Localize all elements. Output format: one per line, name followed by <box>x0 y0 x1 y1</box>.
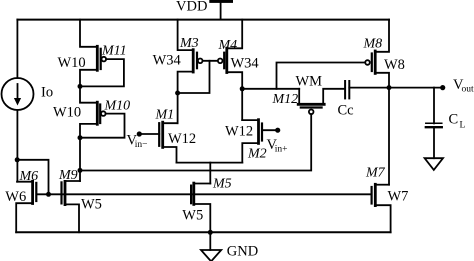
svg-text:Io: Io <box>41 85 53 101</box>
svg-text:M4: M4 <box>218 38 238 53</box>
svg-text:W7: W7 <box>388 189 409 205</box>
svg-text:W34: W34 <box>231 56 260 72</box>
svg-text:M8: M8 <box>363 37 383 52</box>
svg-text:M1: M1 <box>155 108 175 123</box>
svg-text:W6: W6 <box>5 189 26 205</box>
svg-text:Cc: Cc <box>338 103 354 119</box>
svg-text:L: L <box>460 121 466 131</box>
svg-text:M5: M5 <box>212 177 232 192</box>
svg-text:M12: M12 <box>272 92 299 107</box>
svg-text:W10: W10 <box>53 105 81 121</box>
svg-text:C: C <box>449 112 459 128</box>
svg-text:M2: M2 <box>247 147 267 162</box>
svg-text:WM: WM <box>296 74 323 90</box>
svg-text:W12: W12 <box>168 131 196 147</box>
svg-text:VDD: VDD <box>176 0 207 15</box>
svg-text:GND: GND <box>227 244 258 260</box>
svg-text:in−: in− <box>135 140 148 150</box>
svg-text:M9: M9 <box>58 168 78 183</box>
svg-text:M7: M7 <box>365 166 386 181</box>
svg-text:M6: M6 <box>19 169 39 184</box>
svg-text:W12: W12 <box>225 124 253 140</box>
svg-text:W5: W5 <box>81 197 102 213</box>
svg-text:W8: W8 <box>384 57 405 73</box>
svg-text:out: out <box>462 85 474 95</box>
svg-text:M11: M11 <box>101 44 127 59</box>
svg-text:in+: in+ <box>275 145 288 155</box>
svg-text:W34: W34 <box>153 53 182 69</box>
svg-text:M10: M10 <box>104 98 131 113</box>
svg-text:M3: M3 <box>179 36 199 51</box>
svg-text:W10: W10 <box>58 55 86 71</box>
svg-text:W5: W5 <box>182 208 203 224</box>
